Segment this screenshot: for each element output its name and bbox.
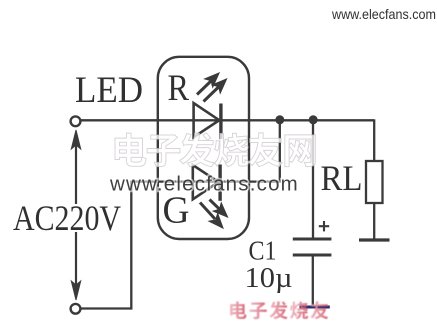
svg-text:AC220V: AC220V (13, 198, 121, 238)
wire: capacitor C1 top lead (312, 120, 314, 238)
svg-text:www.elecfans.com: www.elecfans.com (109, 173, 299, 196)
terminal: AC input lower (71, 304, 81, 314)
resistor RL body (366, 161, 383, 203)
diode D2 cathode bar (218, 165, 221, 201)
D2 cathode junction blob (214, 179, 221, 186)
watermark: center CJK "dianzi fashaoyou wang" (drawn as paths) (115, 133, 315, 167)
capacitor C1 polarity plus (319, 221, 329, 231)
svg-text:RL: RL (321, 158, 363, 198)
junction node B (309, 115, 318, 124)
AC source double-headed arrow (71, 130, 80, 300)
svg-text:www.elecfans.com: www.elecfans.com (331, 6, 436, 22)
wire: lower branch horizontal into LED G diode (130, 180, 280, 182)
diode D1 cathode bar (219, 104, 222, 140)
capacitor C1 bottom rail stub (navy) (300, 306, 330, 309)
D1 emission arrows (pointing up-right) (197, 74, 226, 102)
resistor RL bottom rail stub (359, 238, 390, 241)
capacitor C1 plates (293, 239, 332, 255)
svg-text:10µ: 10µ (245, 263, 293, 294)
svg-text:C1: C1 (249, 236, 277, 266)
diode D1 red LED triangle (194, 103, 220, 137)
D2 emission arrows (pointing down-right) (200, 200, 227, 228)
svg-text:LED: LED (75, 70, 143, 111)
wire: node A vertical joining lower branch (279, 119, 281, 183)
wire: bottom rail from lower terminal (81, 307, 133, 309)
terminal: AC input upper (71, 116, 81, 126)
junction node A (275, 115, 284, 124)
wire: RL bottom lead (373, 203, 375, 239)
wire: RL top vertical drop (373, 119, 375, 161)
wire: lower branch vertical from bottom rail up (130, 182, 132, 309)
svg-text:R: R (168, 68, 190, 109)
svg-text:G: G (163, 190, 190, 232)
wire: main top rail from input terminal to RL corner (81, 119, 375, 121)
label: AC220V source value (10, 204, 125, 232)
LED package U1 outline (158, 57, 249, 239)
watermark: center url www.elecfans.com (109, 173, 299, 196)
wire: capacitor C1 bottom lead (312, 255, 314, 306)
diode D2 green LED triangle (193, 165, 219, 199)
